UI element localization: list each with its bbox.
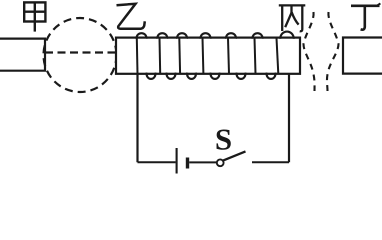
coil L1 top loops [137, 32, 294, 39]
svg-text:S: S [215, 121, 232, 156]
coil L1 crossing wires [137, 38, 278, 74]
label 乙 [117, 4, 145, 29]
label 丁 [351, 3, 380, 29]
label 丙 [279, 5, 306, 31]
battery B1 positive plate [176, 148, 178, 174]
core bar 乙丙 (solenoid core) [116, 38, 300, 74]
wire (left lead from coil down) [136, 74, 138, 163]
dashed ellipse (attraction region around joint of 甲 and 乙) [44, 18, 117, 92]
battery B1 negative plate [186, 158, 189, 169]
wire (switch to right lead) [252, 161, 289, 163]
wire (bottom left to battery) [138, 161, 176, 163]
wire (battery to switch) [189, 161, 217, 163]
dashed axis line [45, 51, 116, 53]
switch S blade [223, 151, 245, 160]
bar 甲 (left steel bar, open at image left edge) [0, 39, 45, 71]
bar 丁 (right steel bar, open at image right edge) [343, 38, 382, 74]
switch S pivot [217, 159, 224, 166]
wire (right lead up to coil) [288, 74, 290, 162]
label 甲 [24, 2, 45, 31]
coil L1 bottom loops [147, 73, 276, 79]
repulsion dashed curve right (at 丁 end) [327, 12, 339, 91]
repulsion dashed curve left (at 丙 end) [304, 12, 315, 91]
